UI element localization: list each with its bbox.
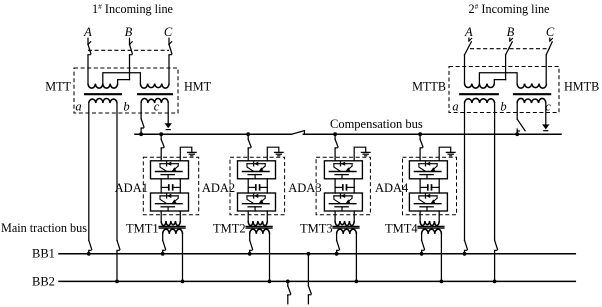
compensation bus left section bbox=[135, 133, 292, 135]
switch QS-ADA3 bbox=[335, 139, 338, 148]
transformer TMT3 primary winding bbox=[335, 221, 354, 226]
junction c-lead / compensation bus (right) bbox=[515, 132, 519, 136]
core bars TMT2 bbox=[246, 226, 272, 228]
node b (2#) bbox=[500, 99, 506, 113]
transformer MTT primary winding bbox=[88, 84, 118, 89]
wire HMT primary to MTT tap (upper step) bbox=[103, 73, 141, 84]
svg-text:Main traction bus: Main traction bus bbox=[1, 221, 87, 235]
net label 2# incoming line title bbox=[469, 1, 550, 16]
node A (1#) bbox=[83, 25, 92, 39]
wire ADA1 to TMT1 right bbox=[179, 211, 181, 221]
label ADA4 bbox=[375, 181, 409, 195]
wire ADA1 tap lower bbox=[160, 148, 162, 160]
breaker QA2 phase A (2#) bbox=[465, 38, 472, 55]
svg-text:MTTB: MTTB bbox=[412, 80, 446, 94]
dashed breaker group link (1#) bbox=[88, 49, 169, 51]
wire TMT2 secondary right lead to BB2 bbox=[269, 234, 271, 282]
switch QL1 feeder 1 bbox=[288, 286, 291, 296]
wire ADA4 to TMT4 right bbox=[438, 211, 440, 221]
wire TMT4 secondary right lead to BB2 bbox=[440, 234, 442, 282]
switch QF4 b-lead (right) bbox=[495, 240, 498, 251]
transformer boundary box MTT-HMT bbox=[74, 68, 178, 113]
wire TMT3 secondary left lead bbox=[336, 234, 338, 240]
switch QS-ADA2 bbox=[248, 139, 251, 148]
wire c-lead lower (left) bbox=[140, 129, 142, 135]
net label Compensation bus bbox=[330, 117, 423, 131]
junction TMT1 / BB1 bbox=[161, 252, 165, 256]
converter bridge U4a (IGBT with diode) bbox=[409, 161, 447, 179]
core bar MTTB bbox=[460, 93, 498, 95]
earth (ground) of ADA3 bbox=[361, 152, 370, 155]
wire c-lead lower (right) bbox=[516, 131, 518, 134]
junction TMT4 / BB1 bbox=[420, 252, 424, 256]
wire ADA2 dc link left bbox=[247, 179, 249, 193]
junction ADA3 tap / compensation bus bbox=[333, 132, 337, 136]
converter bridge U2b (IGBT with diode) bbox=[238, 193, 276, 211]
wire a-phase lead to BB1 (right) bbox=[464, 103, 466, 240]
label TMT4 bbox=[385, 221, 418, 235]
wire ADA3 to TMT3 left bbox=[334, 211, 336, 221]
node B (1#) bbox=[125, 25, 133, 39]
wire phase B lower (1#) bbox=[129, 55, 131, 79]
wire ADA4 earth riser bbox=[439, 147, 451, 161]
dashed breaker group link (2#) bbox=[470, 48, 550, 50]
wire a-lead lower (left) bbox=[88, 251, 90, 254]
capacitor C4 dc-link of ADA4 bbox=[420, 185, 439, 190]
wire ADA3 dc link right bbox=[353, 179, 355, 193]
junction ADA4 tap / compensation bus bbox=[418, 132, 422, 136]
node a (2#) bbox=[452, 99, 458, 113]
wire TMT3 left lead lower bbox=[336, 251, 338, 254]
wire TMT1 secondary right lead to BB2 bbox=[182, 234, 184, 282]
wire phase C upper (1#) bbox=[168, 38, 170, 44]
wire phase A lower (2#) bbox=[464, 55, 466, 84]
wire MTT primary to node B (lower step) bbox=[118, 80, 130, 84]
node C (2#) bbox=[546, 25, 555, 39]
breaker QC2 phase C (2#) bbox=[546, 38, 552, 55]
junction TMT1 / BB2 bbox=[181, 280, 185, 284]
core bars TMT3 bbox=[333, 226, 359, 228]
compensation bus right section bbox=[303, 133, 561, 135]
label ADA3 bbox=[288, 181, 321, 195]
wire ADA3 earth riser bbox=[354, 147, 366, 161]
wire a-phase lead to BB1 (left) bbox=[88, 103, 90, 240]
wire ADA1 dc link right bbox=[179, 179, 181, 193]
switch QC c-lead to compensation bus (left) bbox=[141, 119, 144, 129]
wire MTTB primary to node B (lower step, 2#) bbox=[494, 80, 505, 84]
wire ADA2 dc link right bbox=[266, 179, 268, 193]
svg-text:1# Incoming line: 1# Incoming line bbox=[92, 1, 173, 16]
junction TMT3 / BB1 bbox=[335, 252, 339, 256]
junction b-lead / BB2 (right) bbox=[493, 280, 497, 284]
wire ADA4 dc link right bbox=[438, 179, 440, 193]
core bar MTT bbox=[85, 93, 121, 95]
bus-tie switch QT (open) bbox=[292, 131, 305, 135]
wire ADA2 to TMT2 left bbox=[247, 211, 249, 221]
net label BB2 bbox=[32, 274, 55, 288]
breaker QC1 phase C (1#) bbox=[169, 42, 172, 56]
label TMT3 bbox=[300, 221, 333, 235]
svg-text:ADA1: ADA1 bbox=[115, 181, 148, 195]
wire ADA2 to TMT2 right bbox=[266, 211, 268, 221]
junction TMT2 / BB2 bbox=[268, 280, 272, 284]
converter unit ADA2 boundary (dashed) bbox=[230, 157, 285, 215]
junction b-lead / BB2 bbox=[115, 280, 119, 284]
switch QF3 a-lead to BB1 (right) bbox=[465, 240, 468, 251]
svg-text:C: C bbox=[164, 25, 173, 39]
wire ADA3 tap upper bbox=[334, 134, 336, 139]
wire ADA2 earth riser bbox=[267, 147, 279, 161]
wire TMT4 left lead lower bbox=[421, 251, 423, 254]
wire TMT1 secondary left lead bbox=[162, 234, 164, 240]
svg-text:BB2: BB2 bbox=[32, 274, 55, 288]
core bar HMT bbox=[138, 93, 172, 95]
converter unit ADA3 boundary (dashed) bbox=[316, 157, 370, 215]
converter bridge U2a (IGBT with diode) bbox=[238, 161, 276, 179]
svg-text:HMTB: HMTB bbox=[564, 80, 599, 94]
ground arrow (left transformer) bbox=[165, 123, 172, 129]
svg-text:TMT2: TMT2 bbox=[213, 221, 246, 235]
node c (2#) bbox=[545, 99, 551, 113]
converter bridge U1b (IGBT with diode) bbox=[151, 193, 189, 211]
wire ADA1 to TMT1 left bbox=[160, 211, 162, 221]
earth (ground) of ADA1 bbox=[188, 152, 197, 155]
transformer MTT secondary winding a bbox=[89, 98, 117, 103]
wire TMT2 left lead lower bbox=[249, 251, 251, 254]
junction c-lead / compensation bus (left) bbox=[139, 132, 143, 136]
wire c-winding left lead (right) bbox=[516, 103, 518, 119]
bus BB1 bbox=[59, 253, 575, 255]
net label 1# incoming line title bbox=[92, 1, 173, 16]
transformer HMT primary winding bbox=[140, 84, 169, 89]
svg-text:c: c bbox=[154, 99, 160, 113]
node A (2#) bbox=[464, 25, 473, 39]
transformer TMT2 secondary winding bbox=[250, 229, 270, 234]
capacitor C2 dc-link of ADA2 bbox=[248, 185, 267, 190]
switch QS-ADA1 bbox=[161, 139, 164, 148]
label TMT1 bbox=[126, 221, 159, 235]
wire phase A lower (1#) bbox=[87, 55, 89, 83]
svg-text:TMT1: TMT1 bbox=[126, 221, 159, 235]
switch QD c-lead to compensation bus (right, open) bbox=[517, 119, 525, 131]
junction feeder 1 / BB2 bbox=[286, 280, 290, 284]
svg-text:Compensation bus: Compensation bus bbox=[330, 117, 423, 131]
wire ADA3 tap lower bbox=[334, 148, 336, 160]
core bar HMTB bbox=[514, 93, 550, 95]
wire b-lead lower (right) bbox=[494, 251, 496, 282]
svg-text:ADA4: ADA4 bbox=[375, 181, 409, 195]
wire TMT1 left lead lower bbox=[162, 251, 164, 254]
transformer HMTB primary winding bbox=[517, 84, 546, 89]
junction ADA1 tap / compensation bus bbox=[159, 132, 163, 136]
svg-text:A: A bbox=[83, 25, 92, 39]
wire phase A upper (1#) bbox=[87, 38, 89, 44]
wire TMT2 secondary left lead bbox=[249, 234, 251, 240]
transformer MTTB secondary winding a bbox=[465, 98, 495, 103]
svg-text:A: A bbox=[464, 25, 473, 39]
wire ADA4 dc link left bbox=[419, 179, 421, 193]
switch QB-TMT2 to BB1 bbox=[250, 240, 253, 251]
switch QF1 a-lead to BB1 (left) bbox=[89, 240, 92, 251]
junction TMT4 / BB2 bbox=[440, 280, 444, 284]
svg-text:ADA2: ADA2 bbox=[202, 181, 235, 195]
transformer HMTB secondary winding c bbox=[517, 98, 546, 103]
svg-text:a: a bbox=[75, 99, 81, 113]
transformer TMT4 secondary winding bbox=[422, 229, 442, 234]
wire c-winding right lead to ground (left) bbox=[167, 103, 169, 123]
svg-text:C: C bbox=[546, 25, 555, 39]
wire ADA2 tap lower bbox=[247, 148, 249, 160]
transformer TMT4 primary winding bbox=[420, 221, 439, 226]
svg-text:HMT: HMT bbox=[184, 80, 212, 94]
wire ADA1 tap upper bbox=[160, 134, 162, 139]
switch QB-TMT3 to BB1 bbox=[337, 240, 340, 251]
ground arrow (right transformer) bbox=[542, 124, 549, 130]
wire HMTB primary to MTTB tap (upper step, 2#) bbox=[479, 73, 517, 84]
bus BB2 bbox=[59, 280, 575, 282]
wire ADA3 to TMT3 right bbox=[353, 211, 355, 221]
wire feeder 1 lower bbox=[287, 295, 289, 303]
transformer HMT secondary winding c bbox=[141, 98, 168, 103]
wire ADA2 tap upper bbox=[247, 134, 249, 139]
converter bridge U3a (IGBT with diode) bbox=[324, 161, 362, 179]
node B (2#) bbox=[507, 25, 515, 39]
wire a-lead lower (right) bbox=[464, 251, 466, 254]
wire c-winding left lead (left) bbox=[140, 103, 142, 119]
svg-text:B: B bbox=[125, 25, 133, 39]
node c (1#) bbox=[154, 99, 160, 113]
switch QS-ADA4 bbox=[420, 139, 423, 148]
transformer TMT1 secondary winding bbox=[163, 229, 183, 234]
wire b-phase lead to BB2 (left) bbox=[116, 103, 118, 240]
svg-text:BB1: BB1 bbox=[32, 246, 55, 260]
core bars TMT4 bbox=[418, 226, 444, 228]
breaker QB2 phase B (2#) bbox=[506, 38, 513, 55]
svg-text:ADA3: ADA3 bbox=[288, 181, 321, 195]
wire phase B upper (1#) bbox=[129, 38, 131, 44]
svg-text:2# Incoming line: 2# Incoming line bbox=[469, 1, 550, 16]
junction a-lead / BB1 bbox=[87, 252, 91, 256]
wire ADA4 tap upper bbox=[419, 134, 421, 139]
svg-text:TMT4: TMT4 bbox=[385, 221, 418, 235]
transformer TMT2 primary winding bbox=[248, 221, 267, 226]
wire feeder 2 upper bbox=[307, 254, 309, 286]
junction TMT3 / BB2 bbox=[355, 280, 359, 284]
junction a-lead / BB1 (right) bbox=[463, 252, 467, 256]
switch QL2 feeder 2 bbox=[308, 286, 311, 296]
transformer boundary box MTTB-HMTB bbox=[449, 67, 559, 113]
converter bridge U4b (IGBT with diode) bbox=[409, 193, 447, 211]
transformer MTTB primary winding bbox=[465, 84, 495, 89]
transformer TMT3 secondary winding bbox=[337, 229, 357, 234]
wire ADA1 earth riser bbox=[180, 147, 192, 161]
node C (1#) bbox=[164, 25, 173, 39]
wire TMT4 secondary left lead bbox=[421, 234, 423, 240]
svg-text:TMT3: TMT3 bbox=[300, 221, 333, 235]
wire ADA4 to TMT4 left bbox=[419, 211, 421, 221]
wire b-lead lower (left) bbox=[116, 251, 118, 282]
wire b-phase lead to BB2 (right) bbox=[494, 103, 496, 240]
transformer TMT1 primary winding bbox=[161, 221, 180, 226]
wire phase B lower (2#) bbox=[505, 55, 507, 80]
label MTT bbox=[45, 80, 71, 94]
wire ADA4 tap lower bbox=[419, 148, 421, 160]
svg-text:b: b bbox=[500, 99, 506, 113]
capacitor C3 dc-link of ADA3 bbox=[335, 185, 354, 190]
junction TMT2 / BB1 bbox=[248, 252, 252, 256]
earth (ground) of ADA4 bbox=[446, 152, 455, 155]
label ADA1 bbox=[115, 181, 148, 195]
net label Main traction bus bbox=[1, 221, 87, 235]
junction feeder 2 / BB1 bbox=[307, 252, 311, 256]
converter unit ADA1 boundary (dashed) bbox=[143, 157, 198, 215]
label ADA2 bbox=[202, 181, 235, 195]
wire feeder 1 upper bbox=[287, 281, 289, 286]
svg-text:a: a bbox=[452, 99, 458, 113]
wire TMT3 secondary right lead to BB2 bbox=[355, 234, 357, 282]
core bars TMT1 bbox=[159, 226, 185, 228]
wire phase C lower (1#) bbox=[168, 55, 170, 83]
switch QB-TMT1 to BB1 bbox=[163, 240, 166, 251]
wire phase C lower (2#) bbox=[545, 55, 547, 84]
switch QB-TMT4 to BB1 bbox=[422, 240, 425, 251]
node b (1#) bbox=[123, 99, 129, 113]
label TMT2 bbox=[213, 221, 246, 235]
node a (1#) bbox=[75, 99, 81, 113]
label MTTB bbox=[412, 80, 446, 94]
label HMT bbox=[184, 80, 212, 94]
junction ADA2 tap / compensation bus bbox=[246, 132, 250, 136]
wire feeder 2 lower bbox=[307, 295, 309, 303]
converter unit ADA4 boundary (dashed) bbox=[403, 157, 457, 215]
earth (ground) of ADA2 bbox=[275, 152, 284, 155]
net label BB1 bbox=[32, 246, 55, 260]
capacitor C1 dc-link of ADA1 bbox=[161, 185, 180, 190]
wire c-winding right lead to ground (right) bbox=[545, 103, 547, 124]
breaker QA1 phase A (1#) bbox=[88, 42, 91, 56]
switch QF2 b-lead (left) bbox=[117, 240, 120, 251]
wire ADA3 dc link left bbox=[334, 179, 336, 193]
converter bridge U3b (IGBT with diode) bbox=[324, 193, 362, 211]
svg-text:b: b bbox=[123, 99, 129, 113]
wire ADA1 dc link left bbox=[160, 179, 162, 193]
label HMTB bbox=[564, 80, 599, 94]
svg-text:MTT: MTT bbox=[45, 80, 71, 94]
converter bridge U1a (IGBT with diode) bbox=[151, 161, 189, 179]
breaker QB1 phase B (1#) bbox=[130, 42, 133, 56]
svg-text:B: B bbox=[507, 25, 515, 39]
